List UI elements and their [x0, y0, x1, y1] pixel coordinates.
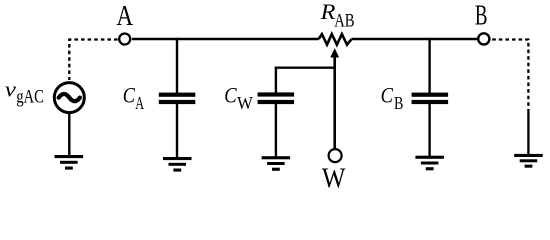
svg-text:AB: AB	[334, 11, 354, 32]
svg-text:W: W	[322, 162, 346, 192]
svg-text:C: C	[224, 82, 237, 107]
svg-text:W: W	[237, 93, 253, 113]
svg-text:B: B	[475, 1, 488, 32]
svg-text:B: B	[394, 93, 403, 113]
svg-text:C: C	[381, 82, 394, 107]
svg-text:v: v	[5, 76, 16, 101]
svg-text:C: C	[123, 83, 135, 108]
svg-text:A: A	[116, 0, 133, 32]
svg-text:A: A	[135, 93, 144, 113]
svg-text:gAC: gAC	[16, 87, 44, 108]
